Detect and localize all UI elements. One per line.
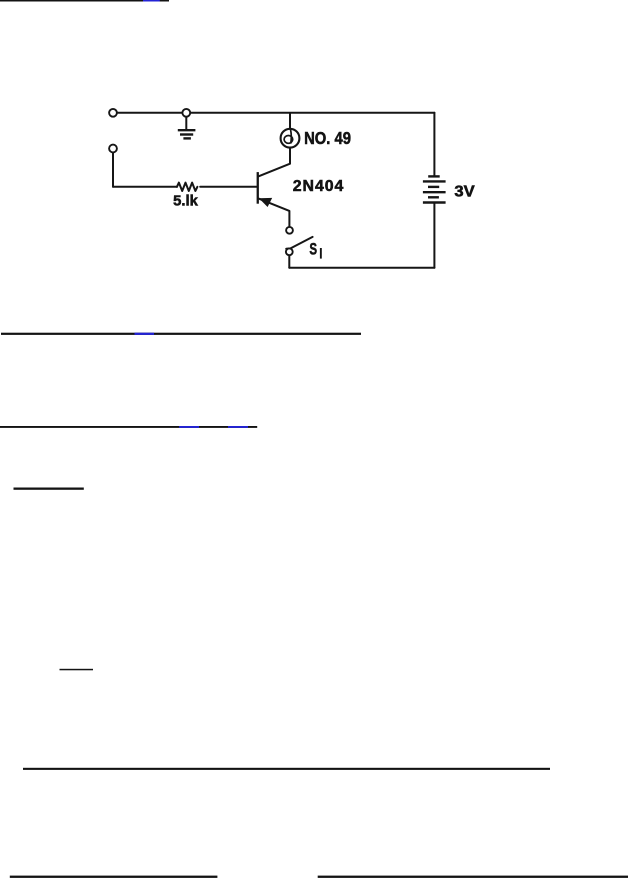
svg-text:NO. 49: NO. 49: [304, 128, 351, 148]
svg-text:2N404: 2N404: [293, 178, 344, 195]
svg-text:S: S: [309, 240, 317, 259]
svg-text:3V: 3V: [454, 183, 475, 200]
svg-text:5.lk: 5.lk: [173, 193, 198, 210]
